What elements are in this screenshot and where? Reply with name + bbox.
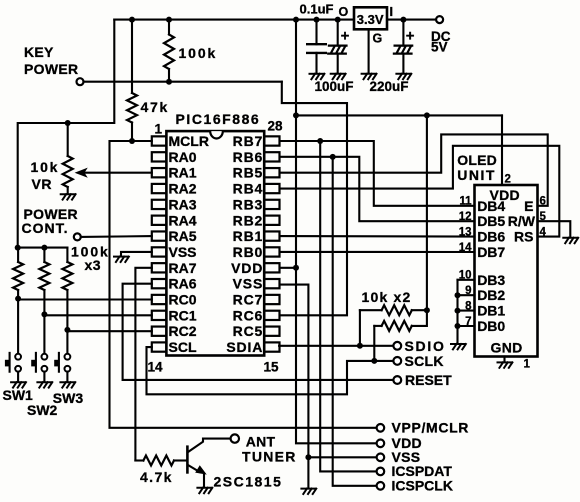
- svg-text:DB7: DB7: [477, 244, 505, 260]
- svg-text:POWER: POWER: [24, 61, 78, 77]
- svg-text:MCLR: MCLR: [169, 133, 209, 149]
- svg-text:10k: 10k: [31, 159, 60, 175]
- svg-text:SCLK: SCLK: [405, 353, 444, 369]
- svg-text:220uF: 220uF: [370, 79, 409, 94]
- svg-text:VR: VR: [32, 176, 52, 192]
- svg-text:RA1: RA1: [169, 165, 197, 181]
- svg-text:DB1: DB1: [477, 303, 505, 319]
- svg-text:1: 1: [524, 359, 531, 371]
- svg-text:RA3: RA3: [169, 196, 197, 212]
- svg-text:DB0: DB0: [477, 318, 505, 334]
- svg-text:+: +: [406, 28, 415, 45]
- svg-text:DB2: DB2: [477, 287, 505, 303]
- svg-text:G: G: [373, 32, 383, 46]
- svg-text:SCL: SCL: [169, 339, 197, 355]
- svg-text:RB7: RB7: [233, 133, 264, 149]
- svg-text:RC2: RC2: [169, 323, 197, 339]
- svg-text:RA7: RA7: [169, 260, 197, 276]
- svg-text:RS: RS: [514, 229, 533, 245]
- svg-text:SDIO: SDIO: [405, 338, 446, 354]
- svg-text:RB1: RB1: [233, 228, 264, 244]
- svg-text:VSS: VSS: [169, 244, 197, 260]
- svg-text:4.7k: 4.7k: [140, 469, 173, 485]
- svg-text:x3: x3: [85, 257, 102, 273]
- svg-text:RC7: RC7: [233, 292, 264, 308]
- svg-text:GND: GND: [491, 340, 523, 356]
- svg-text:ICSPCLK: ICSPCLK: [392, 478, 453, 494]
- svg-text:R/W: R/W: [508, 213, 536, 229]
- svg-text:RA4: RA4: [169, 212, 197, 228]
- svg-text:100uF: 100uF: [315, 79, 354, 94]
- svg-text:DB5: DB5: [477, 213, 505, 229]
- svg-text:RB3: RB3: [233, 196, 264, 212]
- svg-text:RB6: RB6: [233, 149, 264, 165]
- svg-text:3.3V: 3.3V: [357, 12, 384, 27]
- svg-text:OLED: OLED: [457, 152, 497, 168]
- svg-text:RC1: RC1: [169, 307, 197, 323]
- svg-text:47k: 47k: [141, 99, 169, 115]
- svg-text:RA2: RA2: [169, 181, 197, 197]
- svg-text:UNIT: UNIT: [457, 167, 496, 183]
- svg-text:SW3: SW3: [53, 390, 84, 406]
- svg-text:RC6: RC6: [233, 307, 264, 323]
- svg-text:O: O: [339, 5, 349, 19]
- svg-text:PIC16F886: PIC16F886: [176, 111, 261, 127]
- svg-text:E: E: [524, 198, 533, 214]
- svg-text:+: +: [341, 28, 350, 45]
- svg-text:VSS: VSS: [233, 276, 264, 292]
- svg-text:RA5: RA5: [169, 228, 197, 244]
- svg-text:5V: 5V: [431, 40, 448, 55]
- svg-text:28: 28: [268, 118, 284, 133]
- svg-text:100k: 100k: [179, 45, 218, 61]
- svg-text:RC0: RC0: [169, 292, 197, 308]
- svg-text:RESET: RESET: [405, 372, 452, 388]
- svg-text:2SC1815: 2SC1815: [214, 474, 283, 490]
- svg-text:15: 15: [264, 360, 280, 375]
- svg-text:13: 13: [459, 226, 472, 238]
- svg-text:RB2: RB2: [233, 212, 264, 228]
- svg-text:RC5: RC5: [233, 323, 264, 339]
- svg-text:RB5: RB5: [233, 165, 264, 181]
- svg-text:10k x2: 10k x2: [362, 289, 412, 305]
- svg-text:2: 2: [505, 174, 511, 186]
- svg-text:0.1uF: 0.1uF: [300, 2, 334, 17]
- svg-text:TUNER: TUNER: [242, 448, 297, 464]
- svg-text:VPP/MCLR: VPP/MCLR: [392, 420, 470, 436]
- svg-text:12: 12: [459, 211, 472, 223]
- svg-text:DB6: DB6: [477, 229, 505, 245]
- svg-text:DB4: DB4: [477, 198, 505, 214]
- svg-text:SW1: SW1: [3, 387, 34, 403]
- svg-text:SDIA: SDIA: [226, 339, 263, 355]
- svg-text:KEY: KEY: [24, 44, 54, 60]
- svg-text:11: 11: [459, 196, 472, 208]
- svg-text:7: 7: [465, 316, 471, 328]
- svg-text:DB3: DB3: [477, 272, 505, 288]
- svg-text:6: 6: [540, 196, 546, 208]
- svg-text:RA6: RA6: [169, 276, 197, 292]
- svg-text:10: 10: [459, 270, 472, 282]
- svg-text:9: 9: [465, 285, 471, 297]
- svg-text:RA0: RA0: [169, 149, 197, 165]
- svg-text:CONT.: CONT.: [22, 220, 69, 236]
- svg-text:8: 8: [465, 300, 472, 312]
- svg-text:I: I: [390, 5, 393, 19]
- svg-text:14: 14: [459, 242, 472, 254]
- svg-text:VDD: VDD: [231, 260, 263, 276]
- svg-text:1: 1: [155, 122, 163, 137]
- svg-text:4: 4: [540, 226, 547, 238]
- svg-text:ANT: ANT: [246, 433, 276, 449]
- svg-text:14: 14: [148, 360, 164, 375]
- svg-text:RB4: RB4: [233, 181, 264, 197]
- svg-text:RB0: RB0: [233, 244, 264, 260]
